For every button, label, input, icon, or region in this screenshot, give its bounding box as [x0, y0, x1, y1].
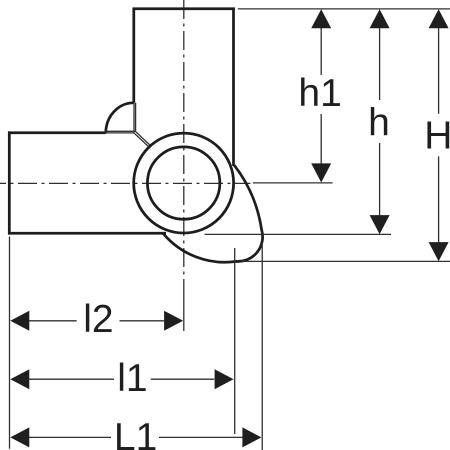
dimension H arrowheads: [429, 9, 449, 261]
dimension h arrowheads: [370, 9, 390, 234]
reference line h1 (pipe axis): [253, 182, 333, 184]
svg-text:l2: l2: [83, 298, 113, 341]
chamfer detail diagonal double line: [134, 132, 150, 147]
centerline vertical axis of top branch: [183, 0, 185, 283]
dimension h1 arrowheads: [311, 9, 331, 182]
extension line l1: [234, 248, 236, 434]
dimension h1 line: [320, 26, 322, 166]
chamfer detail vertical double line: [134, 103, 136, 133]
chamfer detail horizontal double line: [105, 131, 136, 133]
reference line H (outlet bottom): [241, 260, 450, 262]
horizontal pipe bottom edge: [8, 232, 166, 235]
dimension h line: [379, 26, 381, 217]
dimension L1 arrowheads: [10, 427, 261, 447]
vertical pipe right edge: [232, 8, 235, 167]
vertical pipe top edge: [133, 7, 235, 10]
dimension L1 line: [29, 436, 243, 438]
horizontal pipe left edge: [8, 131, 11, 234]
dimension l1 line: [29, 378, 215, 380]
reference line top: [238, 8, 450, 10]
centerline horizontal axis of left branch: [0, 182, 250, 184]
svg-text:L1: L1: [114, 416, 157, 450]
dimension l2 arrowheads: [10, 311, 183, 331]
outer socket circle: [134, 133, 234, 233]
oblique branch outlet outline: [163, 165, 263, 262]
svg-text:h: h: [368, 101, 390, 144]
reference line h (pipe bottom): [205, 233, 391, 235]
svg-text:h1: h1: [298, 72, 341, 115]
horizontal pipe top edge: [8, 131, 106, 134]
dimension l1 arrowheads: [10, 369, 233, 389]
svg-text:l1: l1: [117, 357, 147, 400]
extension line L1: [261, 243, 263, 450]
extension line left (pipe end): [9, 237, 11, 449]
vertical pipe left edge: [132, 8, 135, 103]
fillet arc between branches: [106, 103, 134, 133]
inner socket circle: [147, 147, 219, 219]
wire: solid lower part of vertical centerline (l2 extension): [183, 283, 185, 331]
dimension H line: [438, 26, 440, 244]
dimension l2 line: [29, 320, 165, 322]
svg-text:H: H: [424, 115, 450, 158]
